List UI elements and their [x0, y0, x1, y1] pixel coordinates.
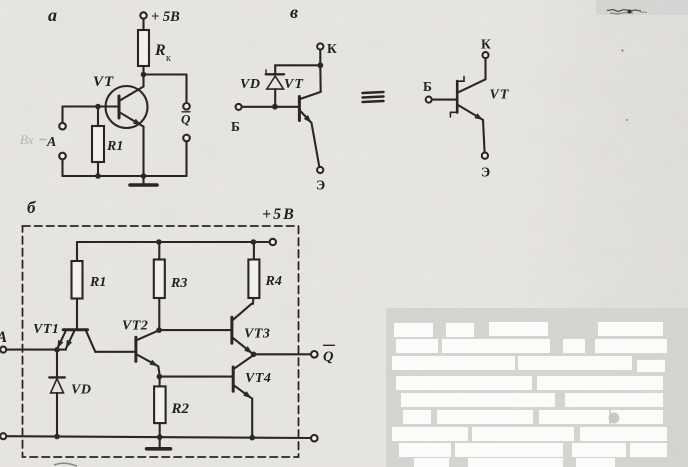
transistor VT4 emitter: [233, 385, 251, 398]
input terminal A: [0, 347, 6, 353]
resistor R2 body: [154, 386, 166, 423]
svg-text:VT1: VT1: [33, 322, 59, 337]
terminal B: [426, 97, 432, 103]
base wire: [242, 106, 299, 108]
wire to VT3 base: [159, 329, 232, 331]
wire: [76, 299, 78, 329]
speck: [622, 50, 624, 52]
ground: [142, 176, 144, 184]
transistor VT4 collector: [233, 356, 253, 370]
svg-text:VD: VD: [71, 383, 91, 398]
bottom rail: [6, 436, 311, 438]
svg-text:VT3: VT3: [244, 327, 270, 342]
label Vx (faint): [20, 132, 34, 147]
svg-text:R2: R2: [171, 401, 190, 417]
node base junction: [272, 104, 278, 110]
label A: [46, 135, 56, 150]
transistor VT: [106, 86, 148, 128]
speck: [626, 119, 628, 121]
svg-text:R4: R4: [265, 274, 282, 289]
wire: [142, 66, 144, 75]
label Q-bar overline: [324, 344, 335, 346]
schottky VT emitter: [457, 105, 482, 120]
wire to VT4 base: [159, 376, 233, 378]
svg-text:Б: Б: [231, 119, 240, 134]
svg-text:в: в: [290, 2, 298, 22]
wire: [158, 298, 160, 330]
node: [157, 434, 163, 440]
grey dot inside block row: [609, 413, 620, 424]
wire: [158, 242, 160, 260]
schottky VT base bar with hooks: [456, 81, 459, 113]
+5V terminal: [270, 239, 276, 245]
input terminal A bottom: [59, 153, 66, 160]
transistor VT4: [245, 371, 271, 386]
right bottom terminal: [311, 435, 318, 442]
ground: [159, 437, 161, 447]
label VT: [490, 88, 510, 103]
transistor VT3: [244, 327, 270, 342]
label +5V: [262, 206, 296, 223]
label b: [27, 198, 37, 217]
transistor VT emitter: [299, 110, 311, 122]
resistor R3 body: [154, 260, 165, 299]
base wire: [63, 105, 120, 107]
transistor VT2 base bar: [134, 337, 137, 361]
transistor VT2 emitter: [136, 354, 158, 366]
svg-text:VT: VT: [490, 88, 510, 103]
node VT2 collector: [156, 327, 162, 333]
transistor VT1 (two emitters): [33, 322, 59, 337]
wire: [61, 107, 63, 123]
wire: [158, 366, 159, 376]
terminal E: [482, 153, 488, 159]
svg-text:VD: VD: [240, 77, 260, 92]
bottom rail: [63, 175, 187, 177]
transistor VT emitter: [119, 112, 141, 125]
resistor R1 body: [92, 126, 104, 162]
node: [95, 173, 101, 179]
transistor VT1 emitter 2: [66, 331, 74, 348]
node: [249, 435, 255, 441]
svg-text:VT: VT: [93, 74, 114, 90]
label VD: [71, 383, 91, 398]
diode VD triangle: [51, 379, 64, 393]
node output junction: [251, 352, 257, 358]
wire: [76, 242, 78, 261]
pencil mark bottom edge: [54, 463, 77, 466]
svg-text:К: К: [327, 41, 337, 56]
label v: [290, 2, 298, 22]
terminal B: [236, 104, 242, 110]
transistor VT2: [122, 319, 148, 334]
label VT: [284, 77, 304, 92]
wire: [144, 73, 187, 75]
svg-text:Q: Q: [181, 112, 191, 127]
diode VD: [266, 73, 284, 75]
wire: [61, 159, 63, 176]
left bottom terminal: [0, 433, 6, 439]
svg-text:R1: R1: [106, 139, 123, 154]
label Rk: [154, 42, 171, 64]
pencil smudge top-right: [607, 10, 647, 15]
svg-text:R: R: [154, 42, 166, 59]
svg-text:R1: R1: [89, 275, 106, 290]
svg-text:Вх: Вх: [20, 132, 34, 147]
transistor VT base bar: [118, 96, 121, 118]
label R3: [170, 276, 187, 291]
terminal E: [317, 167, 323, 173]
dashed box: [23, 226, 299, 457]
svg-text:VT4: VT4: [245, 371, 271, 386]
svg-text:Q: Q: [323, 349, 334, 365]
svg-text:+5В: +5В: [262, 206, 296, 223]
output terminal Q-bar: [311, 351, 318, 358]
wire: [159, 377, 161, 387]
label Q-bar: [182, 111, 190, 113]
label VD: [240, 77, 260, 92]
wire: [56, 393, 58, 437]
input wire: [6, 349, 66, 351]
wire: [97, 162, 99, 176]
svg-text:VT: VT: [284, 77, 304, 92]
terminal K: [317, 43, 323, 49]
node base junction: [95, 104, 101, 110]
svg-text:+ 5В: + 5В: [151, 9, 180, 25]
resistor Rk: [138, 30, 149, 66]
node collector junction: [141, 72, 147, 78]
wire: [253, 242, 255, 260]
svg-text:Э: Э: [481, 165, 490, 180]
wire: [275, 65, 320, 74]
output terminal Q top: [183, 103, 190, 110]
label R2: [171, 401, 190, 417]
resistor R1 body: [72, 261, 83, 299]
wire: [319, 50, 321, 66]
label R4: [265, 274, 282, 289]
resistor R4 body: [248, 260, 259, 299]
wire: [159, 423, 161, 437]
svg-text:а: а: [48, 5, 57, 25]
wire VT1 collector to VT2 base: [95, 351, 136, 353]
label VT: [93, 74, 114, 90]
transistor VT1 emitter 1: [58, 331, 66, 348]
right: terminal K: [481, 37, 491, 52]
svg-text:А: А: [0, 329, 8, 346]
wire: [97, 107, 99, 127]
output terminal bottom: [183, 135, 190, 142]
faint dash after Vx: [40, 139, 46, 141]
node: [156, 239, 162, 245]
wire: [56, 350, 58, 377]
label +5V: [151, 9, 180, 25]
node: [54, 434, 60, 440]
wire: [185, 75, 187, 104]
node: [141, 173, 147, 179]
wire: [251, 398, 253, 437]
top rail: [77, 241, 270, 243]
grey panel bottom-right: [386, 308, 688, 467]
node VT2 emitter: [157, 374, 163, 380]
+5V terminal: [140, 12, 146, 18]
wire: [142, 19, 144, 30]
transistor VT collector: [299, 65, 320, 99]
transistor VT1 base bar: [63, 328, 87, 331]
schottky VT collector: [458, 79, 485, 92]
label a: [48, 5, 57, 25]
diode VD cathode bar: [49, 376, 65, 378]
transistor VT4 base bar: [232, 367, 235, 391]
input terminal A top: [59, 123, 66, 130]
wire: [185, 141, 187, 176]
node: [54, 347, 60, 353]
equivalence sign: [363, 92, 384, 102]
transistor VT base bar: [298, 97, 301, 121]
output wire: [254, 353, 311, 355]
transistor VT collector: [119, 75, 144, 102]
wire: [142, 127, 144, 177]
transistor VT1 collector: [86, 331, 95, 352]
node: [317, 62, 323, 68]
transistor VT3 base bar: [230, 317, 233, 343]
transistor VT3 emitter: [233, 338, 252, 353]
transistor VT3 collector: [233, 304, 252, 320]
svg-text:VT2: VT2: [122, 319, 148, 334]
svg-text:к: к: [166, 53, 171, 64]
label R1: [106, 139, 123, 154]
wire: [252, 298, 253, 304]
svg-text:R3: R3: [170, 276, 187, 291]
svg-text:К: К: [481, 37, 491, 52]
svg-text:Б: Б: [423, 79, 432, 94]
grey strip top-right corner: [596, 0, 688, 15]
collector wire: [484, 58, 486, 79]
wire: [312, 123, 320, 167]
wire: [483, 120, 485, 153]
base wire: [432, 99, 458, 101]
label R1: [89, 275, 106, 290]
transistor VT2 collector: [136, 330, 159, 340]
node: [251, 239, 257, 245]
svg-text:А: А: [46, 135, 56, 150]
svg-text:Э: Э: [316, 178, 325, 193]
